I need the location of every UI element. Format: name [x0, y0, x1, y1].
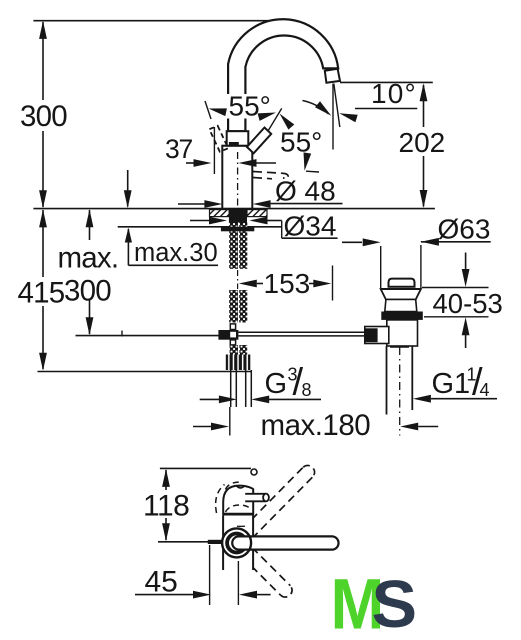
side view: head dashed arcs [216, 485, 225, 514]
lever pivot (black) [229, 142, 239, 146]
spout nozzle (aerator) [325, 69, 340, 83]
clamp washers (hatched) [210, 210, 230, 217]
cartridge cap [227, 131, 249, 146]
svg-text:Ø34: Ø34 [284, 211, 337, 242]
55 deg dim #1 [227, 94, 273, 119]
hose connector nuts (braided) [230, 345, 238, 355]
10 deg arc leader left [303, 101, 329, 115]
max.30 label underline [128, 264, 218, 266]
boss white backing [223, 529, 250, 556]
drain tailpipe [386, 346, 388, 415]
centerline in hose gap [237, 270, 239, 289]
55 deg dim #2 [280, 114, 295, 130]
svg-text:4: 4 [480, 380, 490, 400]
O34 underline [282, 237, 338, 239]
svg-text:Ø63: Ø63 [438, 214, 491, 245]
pop-up rod reference line (max.300) [76, 335, 223, 337]
svg-text:G: G [265, 368, 288, 400]
dimension 118 [165, 470, 167, 490]
faucet spout (gooseneck arch + riser) [228, 19, 338, 131]
shank (black) [229, 209, 247, 222]
head inner dashed arc [226, 505, 251, 512]
pop-up rod cross fitting [230, 324, 235, 330]
deck stub (black) [208, 540, 222, 544]
body centerline [237, 152, 239, 207]
dimension Oslash 34 (tap hole) [190, 220, 210, 222]
svg-text:415: 415 [18, 276, 65, 309]
dimension 300 (faucet height above deck) [42, 22, 44, 100]
side view: top reference line (118) [160, 467, 251, 469]
boss outer circle [222, 528, 251, 557]
dashed lever axis extension [205, 101, 211, 119]
side view: body trunk [223, 516, 253, 571]
hose-end reference line (415) [38, 371, 253, 373]
svg-text:300: 300 [64, 274, 111, 307]
top reference line (faucet top height) [33, 20, 275, 22]
drain pop-up plug cap [389, 279, 415, 287]
svg-text:G1: G1 [432, 368, 471, 400]
G 3/8 label with arrows [200, 398, 220, 400]
45 extension lines [209, 545, 211, 605]
tick on rod line [121, 331, 123, 337]
153 extension line [332, 266, 334, 301]
dimension 45 [135, 594, 193, 596]
dashed raised lever (45 deg up) [243, 477, 313, 548]
countertop deck line [33, 208, 435, 210]
dimension 415 vertical [42, 210, 44, 277]
G1 1/4 label [413, 395, 431, 403]
svg-text:max.180: max.180 [261, 409, 371, 442]
G3/8 threaded ends (striped) [226, 355, 251, 371]
dimension max.180 [193, 426, 211, 428]
10 deg leader right [355, 108, 417, 110]
dimension 202 [423, 85, 425, 127]
horizontal pop-up rod to drain [238, 331, 366, 333]
max.180 left extension [229, 407, 231, 436]
dimension max.30 (deck thickness) [127, 170, 129, 207]
side view lever arm [232, 536, 338, 549]
O63 extension lines [380, 246, 382, 288]
O63 underline [421, 241, 491, 243]
solid lever (up-right 55 deg) [247, 128, 271, 154]
svg-text:153: 153 [264, 268, 311, 299]
svg-text:37: 37 [165, 134, 193, 164]
drain body upper [385, 300, 417, 312]
dimension 40-53 (clamping range) [422, 287, 489, 289]
faucet body [222, 146, 252, 209]
drain flange [381, 289, 421, 300]
drain locknut (black) [381, 312, 423, 320]
svg-text:10°: 10° [371, 78, 417, 109]
svg-text:45: 45 [145, 566, 178, 599]
dimension 37 [186, 162, 194, 164]
nozzle-height reference line (202 top) [340, 81, 433, 83]
vertical stream reference line [332, 84, 334, 150]
dimension max. 300 vertical [89, 210, 91, 240]
side view: spout stub [245, 494, 266, 502]
solid lever axis extension [268, 108, 282, 131]
braided hoses upper [229, 223, 247, 269]
side view: lower reference line [158, 541, 213, 543]
dashed lowered lever (45 deg down) [233, 548, 281, 596]
dashed lever (up-left position) [209, 126, 228, 152]
head notch [237, 486, 245, 488]
backnut (black) [221, 227, 254, 232]
ring between head and body [223, 513, 254, 516]
drain body below nut [387, 320, 418, 346]
dimension Oslash 63 (flange) [342, 241, 362, 243]
svg-text:300: 300 [20, 100, 67, 133]
svg-text:55°: 55° [280, 127, 322, 158]
svg-text:max.: max. [58, 241, 119, 274]
side view: faucet head [223, 486, 253, 515]
dimension Oslash 48 (base) [178, 203, 205, 205]
10-degree tilted stream line [334, 84, 340, 128]
svg-text:40-53: 40-53 [433, 288, 503, 319]
flexible hoses [230, 370, 232, 407]
svg-text:8: 8 [302, 380, 312, 400]
svg-text:202: 202 [399, 127, 446, 158]
svg-text:max.30: max.30 [134, 239, 218, 267]
drain centerline [399, 347, 401, 436]
dashed lever-down lines [253, 172, 283, 174]
boss inner ring (thick) [227, 534, 246, 553]
raised lever tip circle [251, 469, 257, 475]
deck bottom line [118, 226, 282, 228]
svg-text:Ø 48: Ø 48 [275, 176, 336, 207]
svg-text:118: 118 [143, 490, 189, 523]
svg-text:S: S [372, 568, 418, 640]
dimension 153 (spout projection) [239, 280, 257, 288]
rod side port [365, 327, 389, 344]
37 extension line [213, 127, 215, 174]
svg-text:55°: 55° [229, 91, 271, 122]
